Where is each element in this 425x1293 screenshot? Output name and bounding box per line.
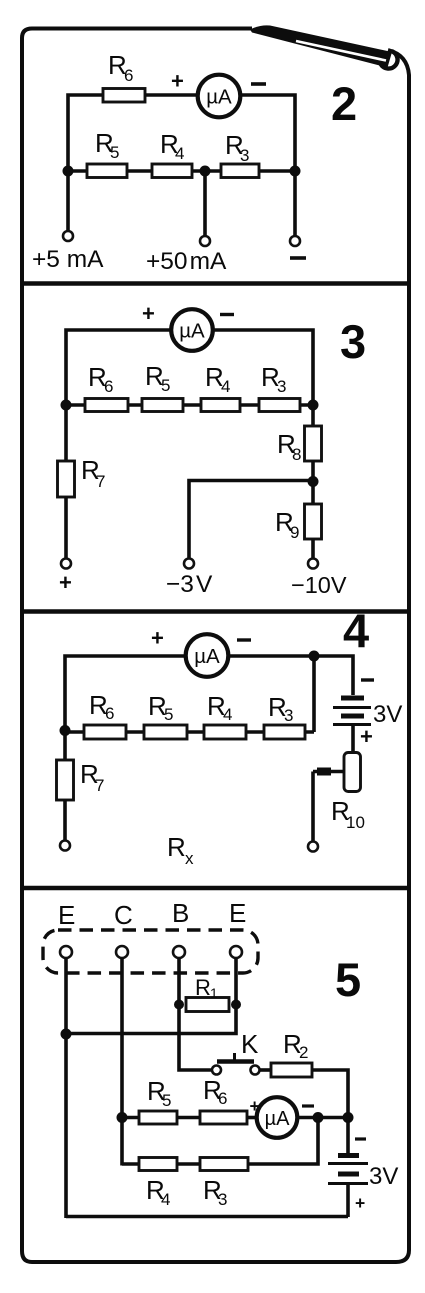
junction node mid right panel3	[308, 476, 319, 487]
wire top left to node panel4	[65, 656, 187, 732]
svg-text:2: 2	[331, 77, 357, 130]
junction node middle	[200, 166, 211, 177]
junction node left panel4	[60, 725, 71, 736]
wire R2 to battery node	[312, 1070, 348, 1118]
svg-text:3: 3	[218, 1190, 227, 1209]
terminal -3V	[184, 559, 194, 569]
wire node to R8	[311, 405, 315, 426]
svg-text:6: 6	[105, 704, 114, 723]
junction node left	[63, 166, 74, 177]
svg-text:3V: 3V	[369, 1163, 398, 1190]
svg-text:3V: 3V	[373, 701, 402, 728]
label R10	[331, 796, 365, 832]
junction node left panel3	[61, 400, 72, 411]
svg-text:−3 V: −3 V	[166, 571, 213, 598]
svg-text:7: 7	[95, 776, 104, 795]
svg-text:5: 5	[162, 1091, 171, 1110]
wiper arrow R10	[313, 770, 344, 774]
socket pin B	[173, 946, 185, 958]
svg-text:+: +	[142, 301, 155, 326]
resistor R3	[259, 399, 300, 412]
battery minus sign panel5	[355, 1137, 366, 1140]
label R5	[145, 361, 170, 395]
svg-text:8: 8	[292, 445, 301, 464]
svg-text:E: E	[58, 900, 75, 930]
wire left top to node	[68, 95, 104, 171]
resistor R6	[103, 89, 145, 103]
panel divider 3	[22, 886, 409, 891]
terminal right panel4	[308, 842, 318, 852]
switch K	[212, 1053, 260, 1075]
resistor R8	[305, 426, 322, 461]
terminal -10V	[308, 559, 318, 569]
junction C meter row	[117, 1112, 128, 1123]
label R5	[95, 128, 119, 162]
label R5 panel5	[147, 1076, 171, 1110]
ammeter uA panel4	[186, 634, 229, 677]
junction node right	[290, 166, 301, 177]
resistor R7	[58, 461, 75, 497]
wire R8 to R9	[311, 461, 315, 504]
label R7 panel4	[80, 759, 104, 795]
minus sign meter panel3	[220, 313, 234, 316]
resistor R6	[84, 725, 126, 739]
svg-text:4: 4	[223, 705, 232, 724]
label R6	[89, 690, 114, 723]
svg-text:µA: µA	[265, 1108, 291, 1130]
wire R4 row from C column	[122, 1162, 140, 1166]
svg-text:+: +	[360, 724, 373, 749]
svg-text:µA: µA	[194, 645, 220, 668]
label R4	[160, 129, 184, 163]
junction E1 node	[61, 1029, 72, 1040]
page curl	[250, 25, 398, 68]
label R2	[283, 1029, 308, 1062]
wire meter to right node	[240, 95, 295, 171]
resistor R5	[142, 399, 183, 412]
terminal +5mA	[63, 231, 73, 241]
resistor R7 panel4	[57, 760, 74, 800]
resistor R9	[305, 504, 322, 539]
battery minus sign panel4	[361, 678, 374, 681]
label R3 panel5	[203, 1175, 227, 1209]
wire R9 to -10V terminal	[311, 539, 315, 559]
label R6	[108, 50, 133, 85]
wire meter to battery top	[228, 656, 353, 695]
junction meter R3 node	[313, 1112, 324, 1123]
junction battery top node	[343, 1112, 354, 1123]
svg-text:B: B	[172, 898, 189, 928]
junction node right panel3	[308, 400, 319, 411]
panel divider 1	[22, 281, 409, 286]
wire right column down to row	[312, 656, 316, 732]
svg-text:4: 4	[343, 604, 369, 657]
label R4	[207, 691, 232, 724]
terminal left panel4	[60, 841, 70, 851]
junction R1 left	[174, 1000, 184, 1010]
label Rx	[167, 832, 194, 868]
svg-text:R: R	[195, 975, 211, 1000]
wire switch to R2	[260, 1068, 273, 1072]
wire R6 to meter	[247, 1116, 258, 1120]
socket pin E1	[60, 946, 72, 958]
svg-text:µA: µA	[206, 86, 232, 109]
wire node to R7	[64, 405, 68, 461]
label R6	[88, 362, 113, 396]
svg-text:6: 6	[104, 377, 113, 396]
resistor R5	[144, 725, 187, 739]
svg-text:5: 5	[335, 953, 361, 1006]
svg-text:+: +	[355, 1193, 365, 1213]
svg-text:3: 3	[240, 146, 249, 165]
svg-text:5: 5	[164, 705, 173, 724]
label R3	[268, 692, 293, 725]
label R5	[148, 691, 173, 724]
label R1	[195, 975, 218, 1001]
wire R7 to terminal panel4	[63, 800, 67, 841]
wire battery top	[346, 1118, 350, 1153]
wire wiper down to terminal	[311, 772, 315, 842]
svg-text:K: K	[241, 1029, 259, 1059]
wire meter to battery column	[297, 1116, 348, 1120]
wire tap to -3V terminal	[189, 481, 313, 559]
wire E2 column to E1 node	[66, 958, 236, 1034]
label minus terminal	[290, 256, 306, 260]
resistor R4	[201, 399, 240, 412]
svg-text:+50 mA: +50 mA	[146, 248, 227, 275]
wire meter to right node	[213, 330, 313, 405]
ammeter uA panel5	[257, 1097, 298, 1138]
label R8	[277, 429, 301, 464]
label R4 panel5	[146, 1175, 170, 1209]
resistor R2	[271, 1063, 312, 1077]
svg-text:6: 6	[218, 1089, 227, 1108]
label R3	[225, 130, 249, 165]
wire R7 to plus terminal	[64, 497, 68, 559]
resistor R5 panel5	[139, 1111, 177, 1124]
terminal plus panel3	[61, 559, 71, 569]
svg-text:+: +	[59, 570, 72, 595]
label R3	[261, 362, 286, 396]
resistor R4 panel5	[139, 1158, 177, 1171]
svg-text:5: 5	[110, 143, 119, 162]
svg-text:3: 3	[284, 706, 293, 725]
svg-text:+: +	[171, 69, 184, 94]
svg-text:4: 4	[161, 1190, 170, 1209]
svg-text:6: 6	[124, 66, 133, 85]
wire top left to node	[66, 330, 173, 405]
wire resistor row panel4	[65, 730, 314, 734]
svg-text:x: x	[185, 849, 194, 868]
wire node to R7 panel4	[63, 732, 67, 760]
junction R1 right	[231, 1000, 241, 1010]
svg-text:4: 4	[221, 377, 230, 396]
resistor R6	[85, 399, 128, 412]
resistor R3 panel5	[200, 1158, 248, 1171]
wire R5 to R6	[177, 1116, 201, 1120]
wire battery to R10	[351, 724, 355, 752]
svg-text:µA: µA	[179, 320, 205, 343]
resistor R6 panel5	[200, 1111, 247, 1124]
wire to minus terminal	[293, 171, 297, 236]
label R4	[205, 362, 230, 396]
battery 3V panel5	[328, 1156, 368, 1184]
minus sign meter panel4	[237, 638, 251, 641]
wire B column to switch	[179, 958, 213, 1070]
wire R3 up to meter node	[248, 1118, 318, 1165]
terminal minus	[290, 236, 300, 246]
panel divider 2	[22, 609, 409, 614]
svg-text:−10V: −10V	[291, 572, 347, 598]
resistor R5	[87, 164, 127, 178]
wire resistor row panel3	[66, 403, 313, 407]
svg-text:2: 2	[299, 1043, 308, 1062]
socket pin C	[116, 946, 128, 958]
svg-text:4: 4	[175, 144, 184, 163]
svg-text:7: 7	[96, 472, 105, 491]
svg-text:E: E	[229, 898, 246, 928]
wire R4 to R3	[177, 1162, 201, 1166]
svg-text:1: 1	[210, 985, 218, 1001]
svg-text:R: R	[167, 832, 186, 862]
wire E1 column	[64, 958, 68, 1218]
bottom rail wire	[66, 1215, 348, 1219]
resistor R3	[264, 725, 305, 739]
potentiometer R10	[344, 753, 361, 792]
wire C column	[120, 958, 124, 1166]
wire R6 to meter	[145, 93, 199, 97]
transistor socket dashed outline	[43, 930, 258, 973]
terminal +50mA	[200, 236, 210, 246]
ammeter uA panel3	[171, 309, 213, 351]
svg-text:3: 3	[277, 377, 286, 396]
svg-text:5: 5	[161, 376, 170, 395]
svg-text:3: 3	[340, 315, 366, 368]
minus sign meter panel5	[302, 1104, 314, 1107]
socket pin E2	[230, 946, 242, 958]
svg-text:C: C	[114, 900, 133, 930]
wire resistor row panel2	[68, 169, 295, 173]
svg-text:+5 mA: +5 mA	[32, 246, 104, 273]
wire to +50mA terminal	[203, 171, 207, 236]
resistor R4	[204, 725, 246, 739]
wire battery to bottom rail	[346, 1185, 350, 1217]
svg-text:10: 10	[346, 813, 365, 832]
battery 3V panel4	[333, 698, 371, 725]
label R6 panel5	[203, 1075, 227, 1108]
junction node top right panel4	[309, 651, 320, 662]
svg-text:+: +	[151, 626, 164, 651]
ammeter uA panel2	[198, 75, 241, 118]
label R9	[275, 507, 299, 542]
resistor R4	[152, 164, 192, 178]
resistor R3	[221, 164, 259, 178]
resistor R1	[186, 998, 229, 1012]
wire to +5mA terminal	[66, 171, 70, 231]
svg-text:9: 9	[290, 523, 299, 542]
label R7	[81, 455, 105, 491]
minus sign meter panel2	[251, 82, 266, 86]
wire meter row left	[122, 1116, 140, 1120]
